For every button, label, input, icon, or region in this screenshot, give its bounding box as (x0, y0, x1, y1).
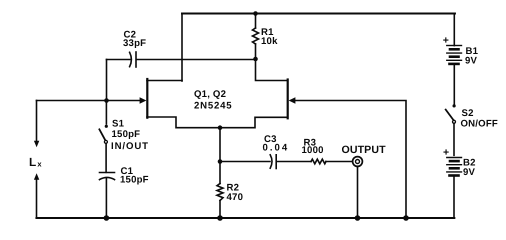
gate arrow of Q2 (289, 97, 296, 104)
svg-text:OUTPUT: OUTPUT (342, 144, 387, 156)
node junction R1 bottom / C2 / drain of Q2 (253, 57, 258, 62)
battery B1 (447, 46, 462, 105)
wire right rail corner down to B1 (453, 14, 455, 46)
wire right drain step from R1 node (256, 59, 288, 81)
capacitor C2 (107, 52, 256, 67)
wire Q2 source lead (220, 117, 288, 127)
wire top rail (182, 13, 455, 15)
wire C2 left corner down to gate node (106, 60, 108, 101)
svg-text:9V: 9V (465, 56, 478, 67)
resistor R3 (311, 159, 326, 164)
wire Q1 source lead (147, 117, 220, 128)
svg-text:10k: 10k (261, 36, 278, 47)
wire main gate bus (left) (37, 100, 142, 102)
svg-text:S2: S2 (462, 108, 474, 119)
svg-text:S1: S1 (112, 119, 125, 130)
node junction source bus (218, 125, 223, 130)
battery B2 (447, 158, 462, 219)
node junction bottom rail / R2 (217, 215, 223, 221)
wire bottom rail (37, 217, 455, 219)
svg-text:9V: 9V (463, 167, 476, 178)
node junction top rail / R1 (253, 11, 258, 16)
node junction bottom rail / output (355, 215, 361, 221)
svg-text:470: 470 (227, 192, 244, 203)
gate arrow of Q1 (140, 97, 147, 104)
svg-text:IN/OUT: IN/OUT (111, 141, 149, 152)
wire left edge lower with up arrow (Lx terminal) (34, 173, 39, 180)
wire left drain riser (181, 14, 183, 82)
resistor R2 (217, 162, 223, 219)
svg-text:x: x (37, 159, 42, 168)
node junction gate wire / S1 branch (104, 98, 109, 103)
wire left edge upper with down arrow (Lx terminal) (36, 101, 38, 142)
capacitor C1 (100, 173, 115, 219)
svg-text:ON/OFF: ON/OFF (461, 119, 498, 130)
svg-text:Q1, Q2: Q1, Q2 (194, 89, 226, 100)
transistor Q2 (right JFET channel bar) (287, 80, 289, 119)
wire output jack down to bottom rail (357, 167, 359, 218)
svg-text:2N5245: 2N5245 (194, 101, 232, 112)
transistor Q1 (left JFET channel bar) (146, 79, 148, 118)
wire R3 to output jack (326, 161, 352, 163)
node junction bottom rail / C1 branch (104, 215, 110, 221)
resistor R1 (253, 14, 259, 60)
svg-text:1000: 1000 (302, 145, 324, 156)
svg-text:0.04: 0.04 (263, 143, 290, 154)
svg-text:33pF: 33pF (123, 38, 146, 49)
switch S1 (99, 101, 108, 173)
node junction bottom rail / right gate wire (403, 215, 409, 221)
svg-text:150pF: 150pF (112, 129, 141, 140)
svg-text:+: + (443, 147, 449, 159)
wire source bus down to R2/C3 node (219, 128, 221, 162)
wire Q1 drain lead (147, 80, 182, 82)
capacitor C3 (270, 155, 311, 169)
wire R2 node to C3 (220, 161, 270, 163)
svg-text:L: L (29, 155, 36, 169)
switch S2 (446, 104, 456, 155)
output jack J1 (353, 157, 363, 167)
svg-text:150pF: 150pF (120, 175, 149, 186)
wire right gate to corner (295, 101, 406, 219)
svg-text:+: + (443, 34, 449, 46)
node junction R2 / C3 (218, 159, 223, 164)
